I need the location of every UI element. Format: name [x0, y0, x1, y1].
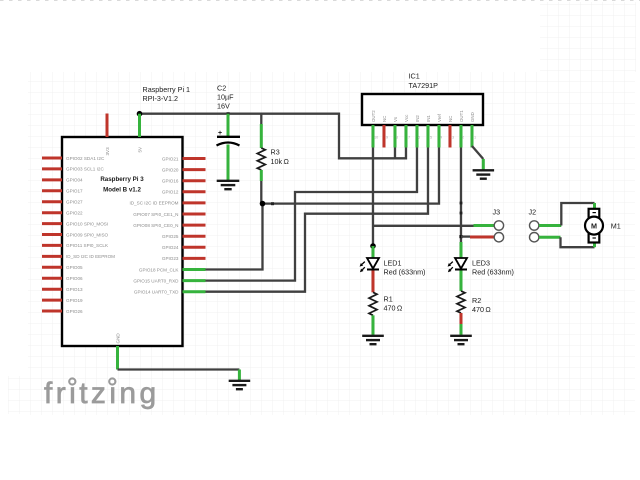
- pin GPIO08 SPI0_CE0_N (right): [183, 224, 206, 227]
- wire 5V net horizontal: [140, 114, 407, 159]
- svg-text:GPIO07 SPI0_CE1_N: GPIO07 SPI0_CE1_N: [133, 212, 178, 217]
- svg-text:NC: NC: [448, 116, 453, 122]
- svg-text:GPIO02 SDA1 I2C: GPIO02 SDA1 I2C: [66, 156, 105, 161]
- svg-text:6: 6: [418, 136, 420, 140]
- capacitor C2: [227, 112, 230, 115]
- svg-text:GPIO14 UART0_TXD: GPIO14 UART0_TXD: [134, 290, 179, 295]
- svg-text:Raspberry Pi 3: Raspberry Pi 3: [100, 176, 144, 183]
- svg-text:16V: 16V: [217, 102, 230, 111]
- pin GPIO03 SCL1 I2C (left): [42, 167, 62, 170]
- svg-text:GPIO15 UART0_RXD: GPIO15 UART0_RXD: [133, 278, 179, 283]
- pin GPIO07 SPI0_CE1_N (right): [183, 213, 206, 216]
- svg-text:Red (633nm): Red (633nm): [472, 268, 514, 277]
- svg-text:2: 2: [462, 136, 464, 140]
- ground symbol (R2): [450, 336, 472, 344]
- pin OUT1 pin2 of IC1: [460, 125, 463, 148]
- pin GPIO14 UART0_TXD (right): [183, 290, 206, 293]
- svg-text:J3: J3: [493, 208, 501, 217]
- svg-text:Vs: Vs: [393, 116, 398, 122]
- svg-text:GPIO25: GPIO25: [162, 234, 179, 239]
- pin GPIO19 (left): [42, 299, 62, 302]
- pin GPIO12 (right): [183, 190, 206, 193]
- svg-text:Red (633nm): Red (633nm): [384, 268, 426, 277]
- svg-text:GPIO19: GPIO19: [66, 298, 83, 303]
- pin GPIO06 (left): [42, 277, 62, 280]
- svg-text:GND: GND: [115, 333, 120, 344]
- pin GPIO05 (left): [42, 266, 62, 269]
- svg-text:Vcc: Vcc: [404, 114, 409, 122]
- svg-text:GPIO24: GPIO24: [162, 245, 179, 250]
- resistor R2: [457, 291, 465, 313]
- pin 5V (top): [138, 114, 141, 137]
- pin GPIO15 UART0_RXD (right): [183, 279, 206, 282]
- svg-text:ID_SC I2C ID EEPROM: ID_SC I2C ID EEPROM: [129, 201, 178, 206]
- svg-text:GPIO16: GPIO16: [162, 179, 179, 184]
- wire OUT2 -> LED1: [372, 148, 374, 247]
- svg-text:470 Ω: 470 Ω: [384, 304, 403, 313]
- pin Vref pin4 of IC1: [438, 125, 441, 148]
- svg-text:GPIO21: GPIO21: [162, 156, 179, 161]
- wire LED1 -> R1 (red): [372, 271, 375, 293]
- wire OUT2 -> J3 pin1: [373, 225, 474, 227]
- svg-text:fritzing: fritzing: [44, 377, 160, 410]
- resistor R3: [260, 114, 262, 124]
- resistor R1: [369, 292, 377, 315]
- ground symbol (R1): [362, 336, 384, 344]
- svg-text:TA7291P: TA7291P: [409, 81, 439, 90]
- node 5V junction: [137, 111, 143, 117]
- svg-text:C2: C2: [217, 84, 226, 93]
- svg-text:LED3: LED3: [472, 259, 490, 268]
- LED3: [460, 242, 463, 246]
- svg-text:IN1: IN1: [426, 115, 431, 122]
- pin GPIO02 SDA1 I2C (left): [42, 157, 62, 160]
- wire OUT1 -> J3 pin2 (red): [461, 235, 470, 237]
- svg-text:GPIO27: GPIO27: [66, 200, 83, 205]
- svg-text:IC1: IC1: [409, 72, 420, 81]
- pin GPIO18 PCM_CLK (right): [183, 268, 206, 271]
- pin GPIO23 (right): [183, 257, 206, 260]
- pin GPIO24 (right): [183, 246, 206, 249]
- wire LED3 -> R2 (green): [460, 271, 463, 292]
- svg-text:GPIO18 PCM_CLK: GPIO18 PCM_CLK: [139, 267, 180, 272]
- pin NC pin9 of IC1: [383, 125, 386, 148]
- svg-text:M1: M1: [611, 221, 621, 230]
- svg-text:GPIO06: GPIO06: [66, 276, 83, 281]
- svg-text:GPIO26: GPIO26: [66, 309, 83, 314]
- svg-text:Model B v1.2: Model B v1.2: [103, 187, 141, 194]
- svg-text:IN2: IN2: [415, 115, 420, 122]
- pin GPIO11 SPI0_SCLK (left): [42, 244, 62, 247]
- wire J2 pin1 -> motor +: [539, 224, 561, 227]
- svg-text:GPIO09 SPI0_MISO: GPIO09 SPI0_MISO: [66, 232, 109, 237]
- svg-text:GPIO03 SCL1 I2C: GPIO03 SCL1 I2C: [66, 167, 104, 172]
- pin GPIO25 (right): [183, 235, 206, 238]
- svg-text:GPIO11 SPI0_SCLK: GPIO11 SPI0_SCLK: [66, 243, 109, 248]
- ground symbol (C2): [217, 181, 240, 189]
- pin GPIO09 SPI0_MISO (left): [42, 233, 62, 236]
- svg-text:GPIO22: GPIO22: [66, 211, 83, 216]
- svg-text:OUT2: OUT2: [371, 110, 376, 122]
- svg-text:M: M: [591, 221, 597, 230]
- svg-text:+: +: [218, 130, 222, 137]
- node LED1 junction: [370, 243, 376, 249]
- ground symbol (IC1 GND): [473, 170, 495, 178]
- svg-text:10: 10: [374, 136, 378, 140]
- svg-text:Raspberry Pi 1: Raspberry Pi 1: [143, 85, 191, 94]
- wire GND from Pi to ground: [118, 368, 240, 370]
- pin IN2 pin6 of IC1: [416, 125, 419, 148]
- node OUT1/J3 junction: [459, 235, 462, 238]
- svg-text:GND: GND: [470, 112, 475, 122]
- pin GPIO04 (left): [42, 178, 62, 181]
- wire GPIO14 -> IN1: [206, 148, 429, 292]
- wire OUT1 -> LED3: [460, 148, 462, 243]
- wire GPIO18/R3 -> Vref: [206, 148, 440, 270]
- pin GPIO20 (right): [183, 168, 206, 171]
- svg-text:4: 4: [440, 136, 442, 140]
- LED1: [372, 246, 375, 258]
- wire IC1 GND -> ground: [472, 146, 483, 159]
- svg-text:3: 3: [452, 136, 454, 140]
- pin GPIO27 (left): [42, 200, 62, 203]
- pin ID_SD I2C ID EEPROM (left): [42, 255, 62, 258]
- pin GPIO10 SPI0_MOSI (left): [42, 222, 62, 225]
- svg-text:GPIO05: GPIO05: [66, 265, 83, 270]
- svg-text:GPIO17: GPIO17: [66, 189, 83, 194]
- pin GPIO21 (right): [183, 157, 206, 160]
- pin GND (bottom): [116, 346, 119, 370]
- wire R2 -> ground (red then green): [460, 313, 463, 324]
- pin Vs pin8 of IC1: [394, 125, 397, 148]
- svg-text:Vref: Vref: [437, 113, 442, 122]
- svg-text:J2: J2: [529, 208, 537, 217]
- pin GPIO13 (left): [42, 288, 62, 291]
- pin NC pin3 of IC1: [449, 125, 452, 148]
- svg-text:R3: R3: [271, 148, 280, 157]
- svg-text:10µF: 10µF: [217, 93, 234, 102]
- svg-text:8: 8: [396, 136, 398, 140]
- pin GPIO17 (left): [42, 189, 62, 192]
- node R3/GPIO18 junction: [260, 201, 266, 207]
- svg-text:10k Ω: 10k Ω: [271, 157, 290, 166]
- svg-text:ID_SD I2C ID EEPROM: ID_SD I2C ID EEPROM: [66, 254, 115, 259]
- svg-text:R1: R1: [384, 295, 393, 304]
- svg-text:1: 1: [474, 136, 476, 140]
- svg-text:9: 9: [386, 136, 388, 140]
- svg-text:GPIO08 SPI0_CE0_N: GPIO08 SPI0_CE0_N: [133, 223, 178, 228]
- pin GPIO26 (left): [42, 310, 62, 313]
- wire J2 pin2 -> motor -: [539, 236, 561, 239]
- IC1 body: [362, 94, 483, 125]
- pin OUT2 pin10 of IC1: [372, 125, 375, 148]
- svg-text:GPIO10 SPI0_MOSI: GPIO10 SPI0_MOSI: [66, 221, 108, 226]
- svg-text:3V3: 3V3: [105, 147, 110, 156]
- pin ID_SC I2C ID EEPROM (right): [183, 201, 206, 204]
- svg-text:OUT1: OUT1: [459, 110, 464, 122]
- svg-text:GPIO12: GPIO12: [162, 190, 179, 195]
- svg-text:5V: 5V: [137, 146, 142, 153]
- pin GPIO16 (right): [183, 179, 206, 182]
- svg-text:R2: R2: [472, 296, 481, 305]
- motor M1: [589, 209, 600, 243]
- svg-text:LED1: LED1: [384, 259, 402, 268]
- svg-text:GPIO13: GPIO13: [66, 287, 83, 292]
- ground symbol (Pi GND): [229, 381, 251, 389]
- svg-text:7: 7: [408, 136, 410, 140]
- svg-text:RPI-3-V1.2: RPI-3-V1.2: [143, 94, 179, 103]
- svg-text:GPIO04: GPIO04: [66, 178, 83, 183]
- pin GND pin1 of IC1: [471, 125, 474, 148]
- pin GPIO22 (left): [42, 211, 62, 214]
- svg-text:GPIO20: GPIO20: [162, 167, 179, 172]
- svg-text:5: 5: [430, 136, 432, 140]
- pin 3V3 (top, unconnected): [106, 114, 109, 138]
- svg-text:NC: NC: [382, 116, 387, 122]
- svg-text:470 Ω: 470 Ω: [472, 305, 491, 314]
- pin IN1 pin5 of IC1: [427, 125, 430, 148]
- wire GPIO15 -> IN2: [206, 148, 418, 281]
- svg-text:GPIO23: GPIO23: [162, 256, 179, 261]
- pin Vcc pin7 of IC1: [405, 125, 408, 148]
- raspberry pi U1 body: [62, 137, 183, 346]
